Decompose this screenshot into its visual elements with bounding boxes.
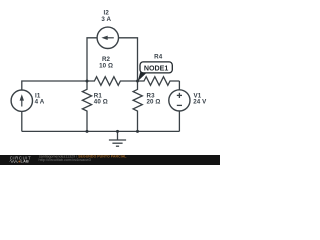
svg-text:LAB: LAB (21, 160, 30, 164)
svg-text:4 A: 4 A (35, 99, 45, 106)
svg-text:10 Ω: 10 Ω (99, 62, 113, 69)
svg-text:40 Ω: 40 Ω (94, 99, 108, 106)
svg-text:R4: R4 (154, 53, 163, 60)
svg-text:NODE1: NODE1 (144, 64, 168, 72)
svg-text:http://circuitlab.com/cs4csacw: http://circuitlab.com/cs4csacw3 (39, 158, 91, 162)
svg-text:3 A: 3 A (101, 16, 111, 23)
svg-text:24 V: 24 V (193, 99, 207, 106)
svg-text:20 Ω: 20 Ω (147, 99, 161, 106)
